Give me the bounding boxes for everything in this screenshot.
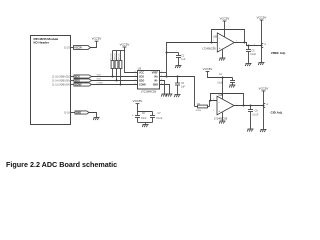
wire U2A V+ (224, 21, 226, 37)
wire VREF riser to U2A (167, 43, 218, 77)
junction R2 tap (116, 80, 118, 82)
capacitor C2 (176, 53, 186, 66)
wire GND flag to ground (89, 113, 97, 118)
ground C2 (175, 66, 181, 69)
svg-text:I/O Header: I/O Header (34, 40, 50, 44)
svg-text:2: 2 (213, 40, 214, 42)
caption (6, 160, 117, 169)
ground C1 (229, 85, 235, 88)
port flag SCK (74, 75, 92, 79)
svg-text:CID Adj.: CID Adj. (271, 110, 283, 114)
svg-text:VCC5V: VCC5V (74, 48, 82, 50)
power symbol VCC5V decoupling (133, 99, 143, 104)
svg-text:1uF: 1uF (181, 87, 186, 89)
wire U2B output (234, 105, 264, 107)
svg-text:J3: J3 (266, 104, 269, 106)
svg-text:J1-14 (ADBUS6): J1-14 (ADBUS6) (52, 79, 70, 82)
wire decoupling gnd stub (145, 123, 147, 125)
ground J2 (258, 63, 264, 66)
svg-text:C1: C1 (219, 74, 223, 76)
wire IN- to ground (160, 81, 165, 94)
junction U2A output/feedback (244, 42, 246, 44)
port flag GND (75, 111, 89, 115)
wire SCK net (92, 76, 138, 78)
svg-text:+: + (132, 114, 134, 117)
wire VREF stub (160, 72, 167, 74)
svg-text:CONV: CONV (75, 85, 82, 87)
wire SDO net (92, 80, 138, 82)
svg-text:8: 8 (226, 29, 227, 31)
resistor R2 (114, 51, 118, 81)
svg-text:SCK: SCK (75, 77, 80, 79)
power symbol VCC5V U2A (220, 16, 230, 21)
svg-text:VCC5V: VCC5V (259, 86, 269, 90)
ground U2A V- (219, 58, 225, 61)
resistor R4 (195, 103, 210, 112)
svg-text:0.1uF: 0.1uF (252, 114, 258, 116)
svg-text:U2A: U2A (213, 35, 218, 38)
svg-text:IN−: IN− (154, 80, 158, 83)
wire IN+ to U2B branch (160, 77, 195, 107)
svg-text:C3: C3 (181, 83, 185, 85)
port flag SDO (74, 79, 92, 83)
junction R1 tap (112, 76, 114, 78)
svg-text:J1-12 (ADBUS4): J1-12 (ADBUS4) (52, 83, 70, 86)
svg-text:LT1490CS8: LT1490CS8 (214, 117, 228, 120)
svg-text:SDO: SDO (139, 80, 144, 83)
svg-text:VCC5V: VCC5V (120, 42, 130, 46)
capacitor C8 (248, 106, 259, 129)
ground U3 GND (166, 94, 172, 97)
svg-text:GND: GND (153, 84, 159, 87)
connector J3 pins (264, 104, 269, 108)
svg-text:VCC5V: VCC5V (133, 99, 143, 103)
svg-text:8: 8 (135, 71, 136, 73)
junction U2B V+ tap (222, 77, 224, 79)
connector J1 box (31, 36, 71, 125)
svg-text:6: 6 (135, 79, 136, 81)
wire decoupling top rail (138, 104, 153, 112)
svg-text:−: − (218, 100, 220, 104)
svg-text:J1-20: J1-20 (64, 47, 71, 50)
svg-text:VREF Adj.: VREF Adj. (271, 51, 286, 55)
svg-text:VCC5V: VCC5V (257, 15, 267, 19)
junction U2B input/feedback (210, 100, 212, 102)
wire U2B V+ (222, 78, 224, 100)
port flag VCC5V (74, 46, 91, 50)
svg-text:R2 10k: R2 10k (114, 53, 116, 59)
wire U2A output (234, 43, 262, 46)
svg-text:0.1uF: 0.1uF (156, 118, 162, 120)
op-amp U2A (217, 33, 234, 52)
svg-text:2: 2 (254, 44, 255, 46)
svg-text:VCC5V: VCC5V (203, 67, 213, 71)
wire U2A feedback loop (212, 30, 245, 43)
svg-text:7: 7 (236, 104, 237, 106)
ground decoupling (142, 125, 148, 128)
wire flag to VCC riser (91, 42, 97, 48)
svg-text:C6: C6 (142, 113, 146, 115)
junction C3 tap (177, 76, 179, 78)
ground C8 (247, 129, 253, 132)
op-amp U2B (217, 96, 234, 115)
capacitor C7 (150, 112, 163, 123)
svg-text:VCC5V: VCC5V (92, 37, 102, 41)
svg-text:U2B: U2B (219, 94, 224, 97)
port flag CONV (74, 83, 92, 87)
svg-text:C2: C2 (181, 55, 185, 57)
IC U3 (138, 68, 160, 94)
svg-text:VCC5V: VCC5V (220, 16, 230, 20)
svg-text:CONV: CONV (139, 84, 146, 87)
wire R4 to U2B input (210, 101, 218, 107)
power symbol VCC5V near J1 (92, 37, 102, 42)
svg-text:SDO: SDO (75, 81, 80, 83)
resistor R1 (110, 51, 114, 77)
svg-text:10uF: 10uF (141, 118, 147, 120)
ground IN- (161, 94, 167, 97)
junction R3 tap (120, 84, 122, 86)
wire stub GND (71, 112, 76, 114)
svg-text:CONV: CONV (97, 83, 104, 85)
junction U2B output/feedback (243, 105, 245, 107)
wire U2B supply rail (208, 72, 233, 78)
junction C2 tap (166, 52, 168, 54)
junction C8 tap (250, 105, 252, 107)
svg-text:4.99k: 4.99k (196, 110, 202, 112)
svg-text:SDO: SDO (97, 79, 102, 81)
wire CONV net (92, 84, 138, 86)
power symbol VCC5V J2 (257, 15, 267, 20)
ground J3 (260, 130, 266, 133)
junction J2/output (261, 45, 263, 47)
svg-text:C7: C7 (158, 113, 162, 115)
ground C3 (174, 95, 180, 98)
wire U2B V- drop (222, 112, 224, 121)
svg-text:C8: C8 (255, 110, 259, 112)
wire C2 tap horizontal (167, 52, 179, 54)
power symbol VCC5V U3 (120, 42, 130, 47)
power symbol VCC5V U2B supply (203, 67, 213, 72)
svg-text:6: 6 (213, 99, 214, 101)
svg-text:5: 5 (213, 110, 214, 112)
capacitor C5 (246, 46, 257, 64)
svg-text:VCC: VCC (139, 72, 144, 75)
svg-text:R3 10k: R3 10k (118, 53, 120, 59)
svg-text:+: + (218, 109, 220, 113)
svg-text:0.1uF: 0.1uF (217, 83, 223, 85)
ground U2B V- (219, 121, 225, 124)
connector J1 title (34, 37, 59, 45)
svg-text:1: 1 (236, 41, 237, 43)
capacitor C6 (132, 112, 147, 123)
power symbol VCC5V J3 (259, 86, 269, 91)
junction C5 tap (248, 45, 250, 47)
wire J3 vertical (263, 91, 265, 129)
svg-text:SCK: SCK (139, 76, 144, 79)
wire pull-up rail (113, 50, 125, 52)
svg-text:GND: GND (76, 113, 81, 115)
junction J3/output (263, 105, 265, 107)
wire U2B feedback loop (211, 94, 244, 106)
svg-text:0.1uF: 0.1uF (250, 54, 256, 56)
wire U2A V- drop (222, 49, 224, 58)
svg-text:LTC1864CS8: LTC1864CS8 (141, 91, 157, 94)
resistor R3 (118, 51, 122, 85)
junction VREF/IN+ tie (166, 76, 168, 78)
junction U2A input/feedback (211, 42, 213, 44)
svg-text:VREF: VREF (152, 72, 159, 75)
connector J2 pins (254, 44, 267, 48)
svg-text:R1 10k: R1 10k (110, 53, 112, 59)
ground C5 (245, 64, 251, 67)
svg-text:1uF: 1uF (181, 59, 186, 61)
capacitor C3 (175, 77, 186, 95)
svg-text:+: + (219, 46, 221, 50)
svg-text:C5: C5 (252, 50, 256, 52)
svg-text:7: 7 (135, 75, 136, 77)
svg-text:5: 5 (135, 83, 136, 85)
svg-text:−: − (219, 36, 221, 40)
wire J2 vertical (261, 20, 263, 62)
wire VCC5V to U3 VCC (125, 47, 138, 73)
wire stub SCK (71, 76, 75, 78)
svg-text:J1-16 (ADBUS5): J1-16 (ADBUS5) (52, 76, 70, 79)
wire stub SDO (71, 80, 75, 82)
svg-text:IN+: IN+ (154, 76, 158, 79)
wire U3 GND to ground (160, 85, 170, 94)
svg-text:J1-18: J1-18 (64, 111, 71, 114)
ground J1 GND (93, 118, 99, 121)
svg-text:3: 3 (213, 46, 214, 48)
wire decoupling bottom rail (138, 122, 153, 124)
wire stub CONV (71, 84, 75, 86)
svg-text:SCK: SCK (97, 75, 102, 77)
wire stub J1-20 (71, 47, 74, 49)
svg-text:J2: J2 (264, 44, 267, 46)
capacitor C1 (217, 74, 235, 85)
